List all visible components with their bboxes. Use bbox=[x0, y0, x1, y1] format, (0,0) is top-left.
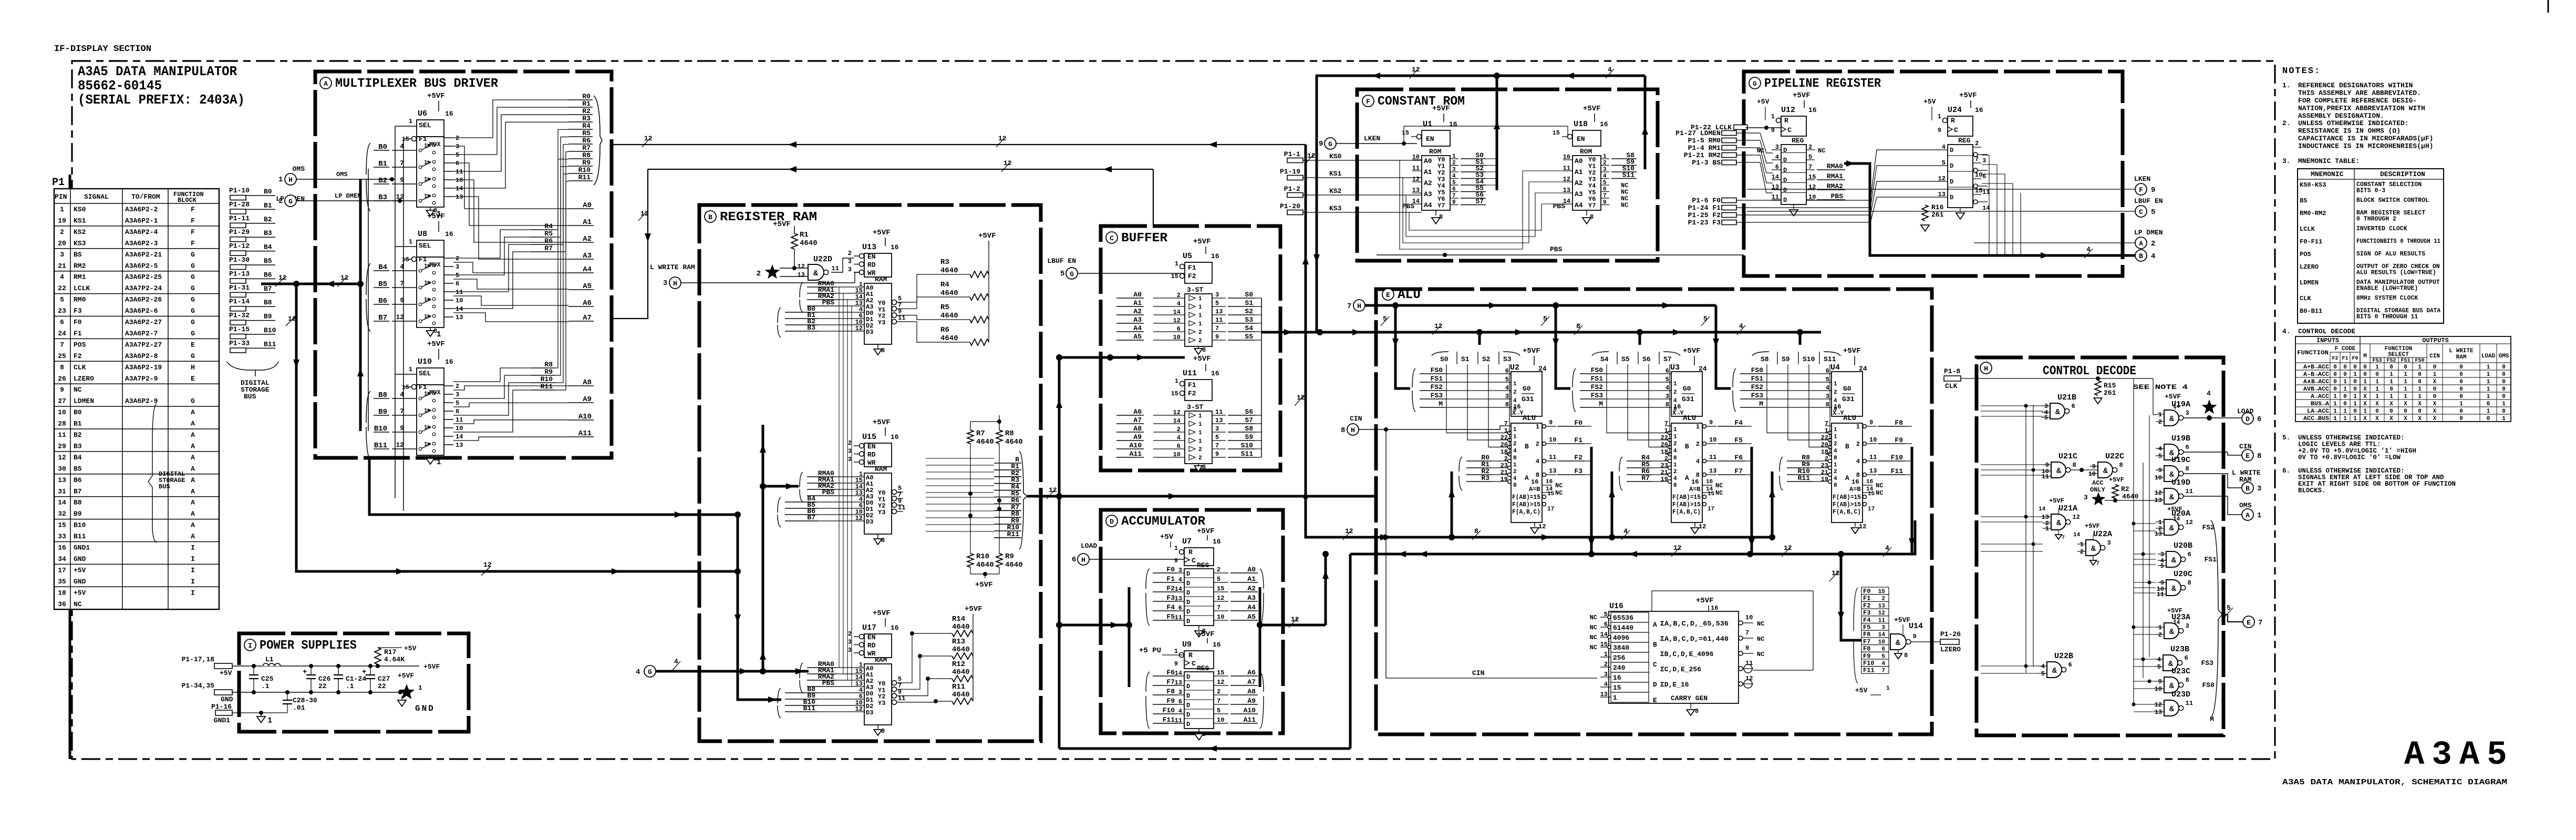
svg-text:P1-29: P1-29 bbox=[229, 228, 250, 236]
svg-text:9: 9 bbox=[2151, 186, 2155, 194]
svg-text:0: 0 bbox=[2404, 408, 2407, 415]
svg-text:H: H bbox=[1351, 426, 1355, 434]
svg-text:16: 16 bbox=[1691, 478, 1699, 486]
svg-text:A5: A5 bbox=[1247, 613, 1256, 621]
svg-text:I: I bbox=[191, 555, 195, 563]
svg-text:1: 1 bbox=[2389, 372, 2393, 378]
svg-text:C26: C26 bbox=[318, 675, 331, 683]
svg-text:+5VF: +5VF bbox=[1432, 105, 1450, 113]
svg-text:U22C: U22C bbox=[2105, 452, 2124, 461]
svg-text:1.: 1. bbox=[2282, 81, 2291, 89]
svg-text:BITS 0-3: BITS 0-3 bbox=[2356, 188, 2385, 194]
svg-text:U4: U4 bbox=[1830, 363, 1840, 372]
svg-text:261: 261 bbox=[1931, 211, 1944, 219]
svg-text:2: 2 bbox=[1198, 447, 1202, 453]
svg-text:1: 1 bbox=[2333, 408, 2337, 415]
digital storage bus brace bbox=[227, 362, 278, 376]
svg-text:R14: R14 bbox=[952, 615, 965, 623]
gate U23A bbox=[2156, 613, 2190, 639]
svg-text:10: 10 bbox=[1173, 451, 1181, 458]
svg-text:12: 12 bbox=[288, 315, 296, 323]
svg-text:3: 3 bbox=[848, 639, 852, 646]
svg-text:12: 12 bbox=[1003, 159, 1012, 167]
svg-text:15: 15 bbox=[1547, 491, 1555, 497]
wire star to U19D bbox=[2105, 500, 2157, 501]
svg-text:U6: U6 bbox=[418, 109, 427, 118]
svg-text:5: 5 bbox=[1505, 376, 1509, 383]
svg-text:B: B bbox=[1685, 443, 1689, 450]
carry gen loop wires bbox=[1652, 590, 1813, 591]
svg-text:33: 33 bbox=[58, 532, 66, 540]
svg-text:R7: R7 bbox=[544, 244, 553, 252]
svg-text:FOR COMPLETE REFERENCE DESIG-: FOR COMPLETE REFERENCE DESIG- bbox=[2298, 97, 2417, 105]
svg-text:FS0: FS0 bbox=[1591, 366, 1603, 374]
svg-text:15: 15 bbox=[1868, 491, 1875, 497]
svg-text:6: 6 bbox=[1505, 367, 1509, 375]
svg-text:KS2: KS2 bbox=[74, 228, 86, 236]
ALU U3 S input labels bbox=[1592, 352, 1680, 364]
svg-text:ΣB,C,D,E_4096: ΣB,C,D,E_4096 bbox=[1660, 650, 1714, 658]
svg-text:+5VF: +5VF bbox=[1793, 91, 1811, 100]
resistor R15 bbox=[2095, 381, 2101, 395]
svg-text:RM0: RM0 bbox=[74, 296, 86, 304]
svg-text:12: 12 bbox=[1412, 66, 1420, 74]
svg-text:LP DMEN: LP DMEN bbox=[2134, 229, 2163, 237]
svg-text:D: D bbox=[1186, 702, 1190, 709]
ALU U2 F output collect wires bbox=[1585, 426, 1591, 427]
svg-text:6: 6 bbox=[456, 408, 459, 415]
svg-text:8: 8 bbox=[2186, 677, 2189, 684]
buffer S collect bracket bbox=[1255, 298, 1261, 299]
svg-text:2: 2 bbox=[1834, 390, 1837, 396]
svg-text:A→ACC: A→ACC bbox=[2311, 394, 2329, 400]
svg-text:D: D bbox=[1950, 147, 1953, 154]
ALU U3 F output collect wires bbox=[1745, 426, 1752, 427]
gate U22A bbox=[2073, 530, 2112, 567]
svg-text:4: 4 bbox=[1536, 458, 1539, 465]
RAM U15 bbox=[848, 418, 906, 545]
svg-text:A3: A3 bbox=[1575, 190, 1583, 198]
svg-text:11: 11 bbox=[1215, 408, 1223, 416]
svg-text:D: D bbox=[1950, 162, 1953, 170]
svg-text:F0: F0 bbox=[74, 319, 82, 326]
svg-text:2: 2 bbox=[2080, 548, 2084, 556]
svg-text:12: 12 bbox=[396, 193, 404, 201]
svg-text:A3A6P2-19: A3A6P2-19 bbox=[125, 363, 162, 371]
svg-text:11: 11 bbox=[1549, 454, 1556, 461]
svg-text:REGISTER RAM: REGISTER RAM bbox=[720, 210, 817, 224]
svg-text:G: G bbox=[191, 397, 195, 405]
svg-text:16: 16 bbox=[891, 624, 899, 632]
vertical bus down to F column bbox=[1841, 554, 1861, 640]
svg-text:F(AB)=15: F(AB)=15 bbox=[1512, 494, 1540, 501]
svg-text:B10: B10 bbox=[264, 326, 276, 334]
svg-text:E: E bbox=[1386, 291, 1390, 299]
svg-text:9: 9 bbox=[1603, 200, 1607, 206]
svg-text:NC: NC bbox=[1757, 147, 1764, 155]
svg-text:&: & bbox=[2171, 556, 2176, 565]
wire LP DMEN vertical to F1 pins bbox=[403, 139, 404, 511]
svg-text:B7: B7 bbox=[264, 285, 272, 293]
svg-text:R: R bbox=[1784, 117, 1788, 125]
svg-text:RMA0: RMA0 bbox=[1827, 162, 1843, 170]
svg-text:7: 7 bbox=[1664, 420, 1668, 427]
svg-text:15: 15 bbox=[1975, 187, 1982, 194]
svg-text:A1: A1 bbox=[1247, 575, 1256, 583]
svg-text:FS1: FS1 bbox=[1431, 375, 1443, 383]
svg-text:B10: B10 bbox=[74, 521, 86, 529]
svg-text:1: 1 bbox=[60, 206, 64, 213]
svg-text:D3: D3 bbox=[866, 518, 873, 526]
svg-text:S8: S8 bbox=[1245, 425, 1253, 433]
svg-text:A: A bbox=[191, 465, 195, 473]
svg-text:P1-15: P1-15 bbox=[229, 325, 250, 333]
svg-text:A∧B→ACC: A∧B→ACC bbox=[2303, 379, 2329, 385]
svg-text:R11: R11 bbox=[1798, 474, 1811, 482]
svg-text:+5VF: +5VF bbox=[1193, 355, 1211, 363]
svg-text:LZERO: LZERO bbox=[2300, 263, 2319, 271]
svg-text:CLK: CLK bbox=[1945, 382, 1958, 390]
svg-text:IF-DISPLAY SECTION: IF-DISPLAY SECTION bbox=[54, 44, 151, 54]
svg-text:P1-13: P1-13 bbox=[229, 270, 250, 278]
svg-text:A1: A1 bbox=[1575, 168, 1583, 176]
svg-text:P1-4 RM1: P1-4 RM1 bbox=[1688, 144, 1721, 152]
wire buffer-block branch at 945 bbox=[1203, 496, 1306, 498]
svg-text:A: A bbox=[324, 80, 328, 88]
svg-text:1: 1 bbox=[2257, 511, 2261, 520]
svg-text:R: R bbox=[1188, 651, 1193, 659]
gate U21B bbox=[2042, 393, 2076, 422]
svg-text:ACC→BUS: ACC→BUS bbox=[2303, 416, 2329, 422]
svg-text:F3: F3 bbox=[1574, 467, 1582, 475]
svg-text:F7: F7 bbox=[1734, 467, 1743, 475]
svg-text:GND: GND bbox=[74, 555, 86, 563]
svg-text:14: 14 bbox=[1772, 173, 1779, 181]
svg-text:NC: NC bbox=[1590, 614, 1597, 621]
svg-text:4: 4 bbox=[1834, 476, 1837, 482]
svg-text:A: A bbox=[191, 454, 195, 462]
bus bottom long at 1424 bbox=[1059, 747, 1350, 750]
svg-text:2: 2 bbox=[456, 383, 459, 390]
svg-text:R13: R13 bbox=[952, 638, 965, 646]
svg-text:ROM: ROM bbox=[1580, 148, 1592, 156]
svg-text:8: 8 bbox=[1513, 455, 1517, 462]
svg-text:R5: R5 bbox=[582, 129, 591, 137]
svg-text:1: 1 bbox=[424, 160, 428, 166]
svg-text:A4: A4 bbox=[1247, 603, 1256, 611]
svg-text:BUS→A: BUS→A bbox=[2311, 401, 2329, 407]
svg-text:10: 10 bbox=[1709, 436, 1716, 444]
bus E7 out bbox=[2222, 614, 2243, 622]
svg-text:2: 2 bbox=[1664, 455, 1668, 463]
svg-text:2: 2 bbox=[1604, 661, 1608, 668]
svg-text:A+B→ACC: A+B→ACC bbox=[2303, 364, 2329, 371]
svg-text:10: 10 bbox=[1975, 171, 1982, 179]
block C bus in bbox=[1059, 356, 1185, 359]
svg-text:U1: U1 bbox=[1423, 120, 1432, 129]
svg-text:0: 0 bbox=[2353, 386, 2357, 393]
svg-text:13: 13 bbox=[456, 314, 463, 321]
svg-text:9: 9 bbox=[1452, 200, 1456, 206]
svg-text:B8: B8 bbox=[74, 499, 82, 507]
svg-text:C25: C25 bbox=[261, 675, 274, 683]
bus down from top to U18 outputs bbox=[1644, 76, 1647, 169]
svg-text:D: D bbox=[1783, 197, 1787, 204]
svg-text:F0: F0 bbox=[2352, 356, 2358, 362]
svg-text:12: 12 bbox=[396, 313, 404, 321]
svg-text:A7: A7 bbox=[1247, 678, 1256, 686]
block G label bbox=[1749, 77, 1761, 89]
svg-text:18: 18 bbox=[1661, 448, 1668, 456]
svg-text:E: E bbox=[1653, 696, 1657, 704]
wire CLK into block bbox=[1961, 378, 2153, 379]
svg-text:G: G bbox=[191, 273, 195, 281]
svg-text:S5: S5 bbox=[1245, 333, 1253, 341]
svg-text:CONTROL DECODE: CONTROL DECODE bbox=[2043, 364, 2136, 378]
svg-text:EN: EN bbox=[1577, 135, 1585, 143]
svg-text:F4: F4 bbox=[1734, 419, 1743, 427]
svg-text:3: 3 bbox=[456, 391, 459, 398]
svg-text:1: 1 bbox=[1673, 381, 1677, 387]
svg-text:2: 2 bbox=[1513, 390, 1517, 396]
wire LKEN to U18 EN bbox=[1404, 126, 1568, 144]
svg-text:R17: R17 bbox=[384, 648, 396, 656]
svg-text:12: 12 bbox=[855, 705, 863, 713]
svg-text:S10: S10 bbox=[1241, 442, 1254, 449]
svg-text:BS: BS bbox=[2300, 197, 2307, 204]
svg-text:+5VF: +5VF bbox=[873, 418, 891, 427]
svg-text:15: 15 bbox=[1171, 273, 1178, 280]
svg-text:NOTES:: NOTES: bbox=[2282, 66, 2321, 76]
svg-text:U14: U14 bbox=[1909, 622, 1923, 631]
svg-text:F0: F0 bbox=[1863, 588, 1870, 595]
svg-text:RMA1: RMA1 bbox=[1827, 172, 1843, 180]
control decode H connector bbox=[1980, 362, 1992, 374]
wire bus A exit right bbox=[612, 144, 1306, 145]
svg-text:EN: EN bbox=[867, 633, 876, 641]
PBS wire bottom block F bbox=[1377, 254, 1744, 255]
svg-text:FS3: FS3 bbox=[1431, 392, 1443, 399]
svg-text:+5VF: +5VF bbox=[1583, 105, 1601, 113]
constant ROM S bus vertical bbox=[1316, 76, 1318, 332]
svg-text:F6: F6 bbox=[1166, 669, 1175, 677]
svg-text:15: 15 bbox=[1613, 684, 1621, 692]
svg-text:25: 25 bbox=[58, 352, 66, 360]
svg-text:4640: 4640 bbox=[976, 561, 994, 569]
svg-text:PBS: PBS bbox=[822, 488, 835, 496]
buffer U5 bbox=[1116, 238, 1255, 354]
svg-text:R8: R8 bbox=[582, 151, 591, 159]
svg-text:UNLESS OTHERWISE INDICATED:: UNLESS OTHERWISE INDICATED: bbox=[2298, 119, 2409, 127]
svg-text:P1-27 LDMEN: P1-27 LDMEN bbox=[1675, 129, 1721, 137]
svg-text:S9: S9 bbox=[1245, 433, 1253, 441]
svg-text:8: 8 bbox=[1505, 401, 1509, 408]
svg-text:8: 8 bbox=[1834, 406, 1837, 413]
svg-text:OMS: OMS bbox=[2239, 501, 2252, 509]
svg-text:F5: F5 bbox=[1166, 613, 1175, 621]
svg-text:POS: POS bbox=[2300, 251, 2311, 258]
svg-text:NC: NC bbox=[1818, 147, 1825, 155]
svg-text:FS1: FS1 bbox=[1591, 375, 1603, 383]
svg-text:4: 4 bbox=[2207, 390, 2211, 397]
svg-text:+5VF: +5VF bbox=[1193, 238, 1211, 246]
svg-text:NC: NC bbox=[1715, 482, 1723, 489]
svg-text:2: 2 bbox=[2158, 418, 2162, 426]
svg-text:NC: NC bbox=[74, 386, 82, 394]
svg-text:A: A bbox=[191, 431, 195, 439]
svg-text:2.: 2. bbox=[2282, 119, 2291, 127]
svg-text:U21A: U21A bbox=[2058, 504, 2077, 513]
svg-text:A1: A1 bbox=[1424, 168, 1432, 176]
svg-text:4640: 4640 bbox=[1005, 561, 1023, 569]
svg-text:0: 0 bbox=[2502, 394, 2506, 400]
resistor R1 bbox=[794, 226, 795, 233]
svg-text:24: 24 bbox=[58, 330, 66, 337]
svg-text:U8: U8 bbox=[418, 230, 427, 239]
svg-text:4: 4 bbox=[1775, 153, 1779, 161]
svg-text:15: 15 bbox=[1402, 129, 1409, 137]
ALU U2 S input labels bbox=[1432, 352, 1520, 364]
resistor R2 bbox=[2112, 485, 2118, 498]
wires U6 outputs staircase to A0-A3 bbox=[453, 146, 568, 209]
svg-text:1: 1 bbox=[1513, 381, 1517, 387]
svg-text:+5V: +5V bbox=[1855, 687, 1868, 694]
svg-text:&: & bbox=[813, 269, 818, 278]
svg-text:RM1: RM1 bbox=[74, 273, 86, 281]
svg-text:U19A: U19A bbox=[2171, 400, 2190, 409]
svg-text:NC: NC bbox=[1715, 489, 1723, 497]
svg-text:P1-20: P1-20 bbox=[1280, 202, 1300, 210]
svg-text:18: 18 bbox=[1501, 448, 1508, 456]
svg-text:8: 8 bbox=[60, 363, 64, 371]
svg-text:3-ST: 3-ST bbox=[1187, 403, 1203, 411]
svg-text:ACCUMULATOR: ACCUMULATOR bbox=[1121, 515, 1206, 529]
svg-text:10: 10 bbox=[1173, 334, 1181, 341]
svg-text:LKEN: LKEN bbox=[2134, 175, 2150, 183]
svg-text:S7: S7 bbox=[1245, 416, 1253, 424]
svg-text:2: 2 bbox=[1217, 688, 1220, 695]
svg-text:4: 4 bbox=[1178, 576, 1182, 583]
svg-text:10: 10 bbox=[1808, 193, 1816, 201]
svg-text:1: 1 bbox=[1664, 427, 1668, 435]
svg-text:E: E bbox=[191, 375, 195, 383]
svg-text:61440: 61440 bbox=[1613, 624, 1633, 632]
svg-text:2: 2 bbox=[60, 228, 64, 236]
svg-text:1: 1 bbox=[2343, 386, 2347, 393]
svg-text:GND1: GND1 bbox=[214, 716, 230, 724]
svg-text:2: 2 bbox=[2151, 240, 2155, 248]
svg-text:13: 13 bbox=[1563, 187, 1570, 194]
svg-text:6: 6 bbox=[1072, 556, 1076, 564]
svg-text:A: A bbox=[191, 487, 195, 495]
svg-text:C: C bbox=[2139, 208, 2143, 216]
svg-text:S2: S2 bbox=[1482, 355, 1491, 363]
svg-text:0: 0 bbox=[2433, 364, 2437, 371]
svg-text:1: 1 bbox=[1198, 321, 1202, 327]
svg-text:F1: F1 bbox=[1574, 436, 1582, 444]
svg-text:8: 8 bbox=[2119, 462, 2123, 469]
svg-text:6: 6 bbox=[2185, 654, 2188, 662]
svg-text:F3: F3 bbox=[1863, 609, 1870, 617]
svg-text:16: 16 bbox=[1808, 106, 1817, 114]
svg-text:S6: S6 bbox=[1642, 355, 1651, 363]
star L WRITE RAM entry bbox=[765, 264, 780, 279]
svg-text:DESCRIPTION: DESCRIPTION bbox=[2380, 170, 2425, 178]
svg-text:22: 22 bbox=[1821, 434, 1828, 442]
svg-text:12: 12 bbox=[1307, 152, 1316, 160]
svg-text:1: 1 bbox=[1771, 113, 1775, 120]
svg-text:18: 18 bbox=[58, 589, 66, 597]
svg-text:2: 2 bbox=[1452, 160, 1456, 167]
svg-text:A3A6P2-9: A3A6P2-9 bbox=[125, 397, 158, 405]
svg-text:11: 11 bbox=[2186, 488, 2193, 495]
svg-text:+: + bbox=[362, 668, 366, 677]
svg-text:3: 3 bbox=[2186, 409, 2189, 417]
svg-text:F10: F10 bbox=[1863, 660, 1875, 667]
svg-text:LP DMEN: LP DMEN bbox=[335, 192, 361, 200]
svg-text:KS1: KS1 bbox=[74, 217, 86, 224]
svg-text:1: 1 bbox=[2404, 372, 2407, 378]
svg-text:REFERENCE DESIGNATORS WITHIN: REFERENCE DESIGNATORS WITHIN bbox=[2298, 81, 2413, 89]
svg-text:5: 5 bbox=[1060, 270, 1064, 278]
svg-text:LCLK: LCLK bbox=[2300, 226, 2315, 233]
svg-text:NC: NC bbox=[1876, 482, 1883, 489]
svg-text:P1-31: P1-31 bbox=[229, 284, 250, 292]
svg-text:11: 11 bbox=[832, 265, 839, 272]
svg-text:G: G bbox=[1328, 140, 1332, 148]
star GND power bbox=[398, 690, 402, 694]
svg-text:1: 1 bbox=[424, 143, 428, 149]
svg-text:F2: F2 bbox=[1166, 585, 1175, 592]
svg-text:A1: A1 bbox=[1133, 299, 1142, 307]
svg-text:B11: B11 bbox=[264, 340, 276, 348]
svg-text:8: 8 bbox=[1826, 401, 1829, 408]
svg-text:1: 1 bbox=[1834, 427, 1837, 433]
svg-text:6: 6 bbox=[60, 319, 64, 326]
svg-text:U19B: U19B bbox=[2171, 434, 2190, 443]
svg-text:2: 2 bbox=[1513, 441, 1517, 447]
svg-text:12: 12 bbox=[855, 325, 863, 332]
svg-text:R: R bbox=[1951, 117, 1955, 125]
svg-text:+5VF: +5VF bbox=[427, 92, 445, 100]
svg-text:A3A5 DATA MANIPULATOR: A3A5 DATA MANIPULATOR bbox=[78, 64, 237, 79]
svg-text:256: 256 bbox=[1613, 654, 1626, 662]
ALU U3 select box bbox=[1573, 347, 1707, 417]
svg-text:S2: S2 bbox=[1245, 308, 1253, 315]
svg-text:G: G bbox=[191, 352, 195, 360]
svg-text:S6: S6 bbox=[1245, 408, 1253, 416]
svg-text:6: 6 bbox=[1665, 367, 1669, 375]
svg-text:G: G bbox=[191, 262, 195, 270]
gate U21A bbox=[2039, 504, 2080, 541]
svg-text:X: X bbox=[2433, 416, 2437, 422]
svg-text:1: 1 bbox=[424, 297, 428, 303]
svg-text:U23C: U23C bbox=[2171, 667, 2190, 676]
svg-text:5: 5 bbox=[2160, 562, 2164, 570]
svg-text:POWER SUPPLIES: POWER SUPPLIES bbox=[260, 639, 357, 653]
svg-text:S11: S11 bbox=[1241, 450, 1254, 458]
svg-text:12: 12 bbox=[1745, 675, 1753, 682]
RAM U17 bbox=[848, 609, 906, 735]
svg-text:1: 1 bbox=[2404, 386, 2407, 393]
svg-text:B3: B3 bbox=[74, 442, 82, 450]
svg-text:S8: S8 bbox=[1761, 355, 1769, 363]
svg-text:1: 1 bbox=[1513, 434, 1517, 441]
svg-text:8: 8 bbox=[1202, 346, 1206, 354]
svg-text:SEL: SEL bbox=[419, 242, 431, 250]
svg-text:12: 12 bbox=[1938, 175, 1946, 182]
svg-text:17: 17 bbox=[1708, 506, 1714, 513]
